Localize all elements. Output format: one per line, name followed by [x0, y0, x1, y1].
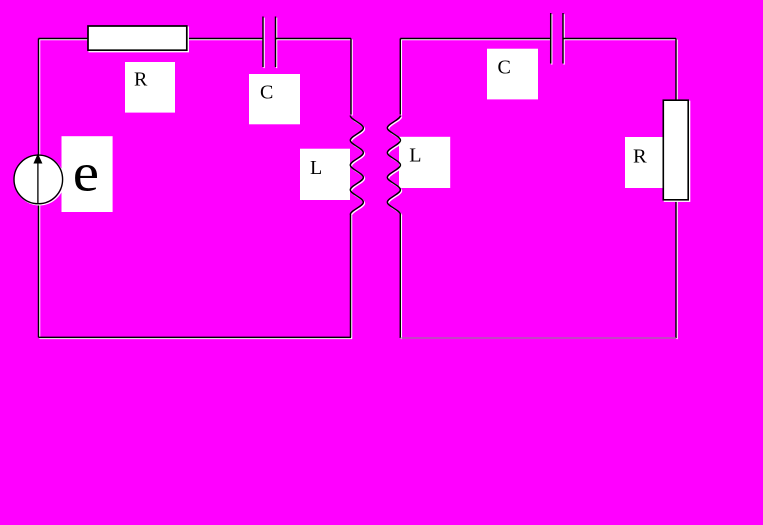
svg-text:L: L — [310, 157, 322, 179]
svg-text:L: L — [409, 145, 421, 167]
svg-text:R: R — [134, 69, 148, 91]
svg-text:R: R — [633, 146, 647, 168]
svg-text:C: C — [498, 57, 511, 79]
svg-text:e: e — [73, 142, 99, 202]
svg-text:C: C — [260, 82, 273, 104]
